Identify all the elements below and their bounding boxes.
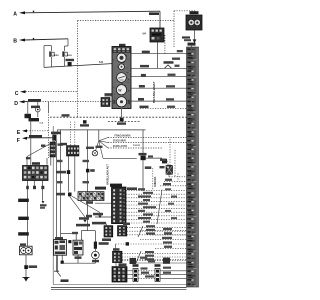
- label blockC out 1: [145, 251, 154, 253]
- wire ecu left 2: [95, 216, 112, 218]
- wire cluster out y88.2: [131, 87, 187, 89]
- label blockC out 2: [145, 255, 154, 257]
- connector column: [50, 142, 56, 157]
- wire ecu out 7: [126, 211, 187, 213]
- box small 1: [130, 258, 137, 264]
- label 5/1: [119, 44, 126, 47]
- svg-text:F: F: [17, 138, 20, 144]
- label row 101.1 a: [138, 98, 144, 101]
- wire cluster out y53.7: [131, 53, 187, 55]
- svg-text:D: D: [14, 101, 18, 107]
- wire M4 pin down: [194, 30, 196, 44]
- wire ecu left 1: [95, 202, 112, 204]
- wire dotted lamp3: [108, 147, 162, 149]
- label C29A: [29, 265, 37, 268]
- wire sender up: [37, 102, 39, 108]
- wire relay link: [61, 232, 77, 234]
- wire bottom row l 274.6: [127, 274, 133, 276]
- terminal arrow: [193, 39, 197, 43]
- label row 76.7 b: [168, 74, 176, 76]
- label y263: [148, 260, 155, 262]
- wire bottom row m 270.8: [138, 270, 155, 272]
- wire diag t2: [72, 196, 100, 212]
- label row 53.7 a: [142, 51, 150, 54]
- connector 1480: [67, 170, 70, 174]
- wire dotted y176: [169, 176, 187, 178]
- slash bundle B: [138, 226, 143, 237]
- label block 12/50: [60, 143, 67, 146]
- label ecu out 4: [143, 199, 150, 201]
- label ecu out 6: [143, 206, 156, 208]
- label ecu left 2: [86, 215, 92, 218]
- label 24/35b: [51, 132, 61, 135]
- svg-text:KD3: KD3: [68, 55, 73, 57]
- wire ecu out 10: [126, 222, 187, 224]
- wire pump feed: [94, 231, 96, 242]
- label ecu out 7: [138, 210, 145, 212]
- label extra y57: [172, 58, 180, 60]
- wire ecu out 8: [126, 215, 187, 217]
- wire A: [25, 11, 161, 13]
- wire blockC out 2: [122, 256, 187, 258]
- label ecu out near 5: [168, 203, 174, 205]
- wire ecu out 3: [126, 197, 187, 199]
- wire b+ drop: [27, 102, 29, 114]
- svg-text:6-R: 6-R: [99, 61, 103, 64]
- wire bottom row r 278.4: [160, 277, 187, 279]
- wire comp2 top link: [65, 45, 69, 47]
- wire dotted top: [174, 10, 196, 12]
- label row 88.2 a: [139, 85, 145, 88]
- label horn: [20, 243, 26, 245]
- label blockB out 1: [146, 225, 155, 227]
- wire B: [25, 39, 69, 40]
- wire dotted drop: [173, 11, 175, 47]
- dashed separator: [50, 116, 187, 118]
- label ecu out 5: [138, 203, 148, 205]
- relay unit 1: [54, 240, 67, 256]
- ecu header: [110, 184, 122, 187]
- pin connector x133: [133, 268, 138, 281]
- wire bracket top: [44, 45, 52, 47]
- label UGA: [182, 36, 190, 38]
- wire dotted rail top: [78, 20, 175, 22]
- label ecu out near 3: [171, 196, 177, 198]
- label 24/8: [139, 153, 147, 156]
- relay 18/35: [166, 165, 173, 174]
- label B-R on separator: [62, 114, 70, 116]
- wire fan 2: [99, 141, 108, 143]
- wire D: [25, 101, 41, 103]
- wire blockP pin up 2: [74, 122, 76, 146]
- wire into 18/35: [167, 163, 169, 165]
- wire dotted y239: [140, 239, 187, 241]
- label row 53.7 b: [177, 50, 183, 52]
- wire grid out a: [33, 181, 35, 189]
- junction bar: [187, 47, 199, 287]
- label 6-W mid: [72, 232, 78, 234]
- wire blockD pin1: [115, 263, 117, 267]
- wire column to grid: [50, 157, 52, 166]
- wire grid pin b: [30, 118, 32, 165]
- label relay1: [55, 237, 63, 240]
- connector 24/8b: [68, 193, 72, 197]
- label 6-P: [57, 181, 63, 183]
- connector mid corridor: [86, 169, 89, 173]
- label 1-56: [145, 166, 152, 169]
- svg-text:E: E: [17, 130, 21, 136]
- bar tick: [191, 46, 193, 47]
- label 18/35 a: [160, 166, 165, 168]
- label br3: [141, 272, 149, 274]
- wire bracket left: [43, 46, 45, 68]
- wire bottom row m 274.6: [138, 274, 155, 276]
- wire cluster out y108.3: [140, 107, 187, 109]
- wire v below 24/8: [142, 160, 144, 191]
- wire corridor b: [86, 130, 88, 231]
- component small: [162, 159, 167, 164]
- wire diag t1: [70, 196, 86, 217]
- label on D: [28, 99, 41, 101]
- wire blockB out 2: [127, 230, 187, 232]
- block 7/20: [104, 226, 113, 237]
- wire to 24/8: [103, 157, 137, 159]
- svg-text:ANNARA: ANNARA: [154, 176, 157, 187]
- label sq a: [80, 124, 89, 126]
- wire relay 6/4 pin down: [156, 42, 158, 68]
- label 11/18: [32, 162, 40, 165]
- connector y244: [126, 242, 129, 245]
- wire dotted y186: [160, 185, 187, 187]
- wire bottom row m 278.4: [138, 277, 155, 279]
- wire blockC pin up: [115, 244, 117, 251]
- relay 24/8: [141, 156, 146, 161]
- wire grid pin a: [26, 157, 28, 166]
- label blockB: [123, 223, 130, 225]
- connector C29: [24, 265, 28, 269]
- fuse symbol: [165, 65, 172, 68]
- connector sq a: [83, 120, 87, 123]
- wire comp2 pin down: [64, 57, 66, 67]
- frame bottom: [53, 284, 186, 286]
- diode unit 1: [49, 51, 59, 56]
- slash bundle C: [136, 251, 141, 263]
- wire drop to relay 6/4: [159, 11, 161, 28]
- wire blockP out2: [74, 156, 76, 192]
- wire mid horizontal: [57, 129, 145, 131]
- wire dotted lamp2: [108, 142, 187, 144]
- svg-text:VAXELLADA AUT: VAXELLADA AUT: [107, 164, 110, 185]
- label blockC out 3: [145, 258, 154, 260]
- wire C dotted: [26, 91, 78, 93]
- label ecu out 9: [138, 217, 151, 219]
- wire 4-R: [146, 157, 162, 159]
- wire blockA pin: [106, 224, 108, 226]
- label 1480: [56, 171, 66, 174]
- wire mid far drop: [142, 130, 144, 156]
- wire blockB out 1: [127, 227, 187, 229]
- wire F arrow: [22, 137, 27, 140]
- label bar 4/8: [188, 43, 196, 46]
- label y230: [163, 228, 172, 230]
- wire D dotted: [40, 101, 112, 103]
- label ecu out near 7: [165, 210, 171, 212]
- label br1: [141, 267, 148, 269]
- wire C arrow: [20, 90, 26, 93]
- connector strip: [78, 192, 104, 201]
- wire dotted y259b: [170, 258, 187, 260]
- relay M4: [186, 15, 202, 30]
- label ecu out near 9: [171, 217, 177, 219]
- wire ecu out 6: [126, 208, 187, 210]
- bulb: [92, 151, 97, 156]
- label ecu out near 1: [165, 188, 171, 190]
- wire dotted v x77: [77, 21, 79, 118]
- wire dotted feed x170: [169, 139, 171, 165]
- label 2/45: [40, 204, 47, 206]
- label br4: [163, 272, 171, 274]
- label y239: [162, 237, 172, 239]
- wire sender down: [37, 112, 39, 117]
- label row 68.3 a: [140, 65, 149, 68]
- label C294: [18, 232, 29, 235]
- wire A arrow: [19, 11, 25, 14]
- ground diag: [57, 271, 61, 276]
- label blockA: [102, 238, 111, 241]
- relay 6/4: [150, 28, 164, 42]
- wire diagonal: [27, 141, 56, 157]
- wire ecu out 2: [126, 193, 187, 195]
- wire B arrow: [19, 39, 25, 42]
- wire cluster out y68.3: [131, 67, 187, 69]
- terminal 2/45: [42, 201, 45, 204]
- wire bottom row r 270.8: [160, 270, 187, 272]
- label raket: [86, 147, 94, 149]
- ecu block: [112, 187, 127, 224]
- label row 108.3 b: [167, 106, 175, 108]
- wire junction to column: [52, 141, 54, 143]
- border line 2: [51, 288, 187, 290]
- wire cluster pin down: [121, 109, 123, 118]
- label ecu out 10: [143, 221, 150, 223]
- connector relay1 b: [61, 261, 64, 264]
- wire bottom link: [62, 262, 95, 264]
- label blockD: [119, 263, 127, 266]
- label B+ box: [25, 114, 32, 118]
- wire dotted below 18/35: [177, 173, 179, 181]
- label ecu out 1: [138, 188, 145, 190]
- wire bottom row r 274.6: [160, 274, 187, 276]
- label y244: [163, 241, 172, 243]
- wire B drop: [67, 39, 69, 46]
- label t1: [79, 217, 89, 220]
- box small 2: [163, 258, 170, 264]
- wire dotted v x175: [174, 150, 176, 177]
- wire blockD pin2: [119, 263, 121, 267]
- label 6/22: [164, 61, 174, 64]
- wire dotted y259: [122, 258, 163, 260]
- wire 18/35 down: [168, 174, 170, 177]
- label mid corridor: [90, 169, 95, 172]
- block 7/35: [118, 226, 127, 236]
- label y248: [164, 246, 172, 248]
- wire dotted y248: [155, 247, 187, 249]
- wire ecu out 9: [126, 218, 187, 220]
- svg-text:FRAGAN NRA: FRAGAN NRA: [115, 135, 131, 138]
- label 24/6: [117, 122, 126, 124]
- wire horn down: [25, 255, 27, 265]
- wire y263: [136, 262, 187, 264]
- tick grid out b: [26, 186, 29, 189]
- label on F: [29, 135, 42, 137]
- wire E arrow: [22, 129, 27, 132]
- label UGA2: [184, 39, 191, 41]
- label 24/36: [18, 217, 29, 220]
- pin connector x155: [155, 268, 160, 281]
- label t2: [93, 213, 103, 216]
- svg-text:A: A: [13, 11, 17, 17]
- label t2b: [92, 222, 106, 225]
- wire E dotted: [27, 130, 49, 132]
- label 18/35 b: [160, 159, 166, 161]
- wire blockC out 1: [122, 252, 187, 254]
- wire chain solid: [46, 158, 48, 165]
- label ecu arrow: [127, 187, 137, 190]
- wire comp1 pin down: [51, 57, 53, 67]
- tick on B: [33, 38, 34, 40]
- label strip: [95, 187, 106, 190]
- pump connector: [94, 242, 97, 249]
- terminal t1: [83, 220, 86, 223]
- wire cluster left 16-A: [105, 95, 113, 97]
- label blockC: [113, 248, 120, 251]
- tick grid out c: [41, 186, 44, 189]
- tick grid out a: [33, 186, 36, 189]
- junction box 24/35b: [52, 135, 56, 141]
- wire corridor a: [60, 130, 62, 240]
- wire blockP pin up 1: [69, 122, 71, 146]
- label 24/8b: [56, 193, 65, 196]
- wire to cluster: [44, 64, 112, 68]
- wire to ground: [25, 269, 27, 277]
- wire relay1 down b: [61, 255, 63, 260]
- wire cluster out y101.1: [131, 100, 187, 102]
- wire fan bulb: [96, 141, 99, 151]
- label 16-W: [83, 160, 90, 162]
- label y259: [140, 257, 147, 259]
- wire bottom row l 270.8: [127, 270, 133, 272]
- label row 68.3 b: [175, 65, 180, 67]
- wire comp1 pin up: [51, 46, 53, 52]
- label row 108.3 a: [140, 106, 149, 109]
- label row 88.2 b: [166, 85, 175, 87]
- label 4-R: [148, 155, 153, 157]
- svg-text:TJOCK: TJOCK: [133, 145, 141, 147]
- wire fan 3: [99, 141, 108, 148]
- label GBN: [61, 279, 69, 282]
- wire dotted v x164: [164, 35, 166, 54]
- label 24/35c: [18, 199, 29, 202]
- wire dotted y230: [140, 230, 187, 232]
- wire fan to relay wire: [99, 141, 103, 159]
- label ecu out 3: [138, 195, 151, 197]
- label 24/35: [66, 59, 75, 61]
- wire relay1 down b2: [61, 263, 63, 265]
- wire mid right drop: [98, 130, 100, 141]
- wire main down: [56, 141, 58, 272]
- wire F: [27, 137, 55, 139]
- block 12/50: [67, 146, 79, 156]
- wire dotted y244: [116, 243, 187, 245]
- slash bundle ecu: [157, 190, 162, 225]
- terminal t2: [98, 215, 101, 218]
- label 16-A: [105, 93, 112, 95]
- wire dotted y181: [164, 180, 187, 182]
- label conn1: [133, 264, 139, 267]
- wire blockB out 3: [127, 234, 187, 236]
- label 2/45b: [40, 207, 45, 209]
- pump motor: [92, 251, 100, 259]
- wire D arrow: [19, 100, 25, 103]
- wire relay2 down: [77, 255, 79, 263]
- tick on A: [33, 11, 34, 13]
- label 24/2: [31, 106, 40, 109]
- wire ecu out 1: [126, 190, 187, 192]
- wire comp2 pin up: [64, 46, 66, 51]
- wire ecu out 5: [126, 204, 187, 206]
- diode unit 2: [62, 51, 72, 56]
- dashed separator 2: [108, 120, 140, 122]
- wire relay top a: [60, 239, 62, 241]
- svg-text:EUOS AUTO: EUOS AUTO: [113, 145, 127, 148]
- label SVB-P: [99, 242, 109, 245]
- label blockB out 2: [146, 229, 155, 231]
- wire chain down: [48, 102, 50, 112]
- label blockB out 3: [146, 232, 155, 234]
- wire relay drop c: [80, 231, 82, 241]
- label at bend: [26, 157, 30, 159]
- label row 101.1 b: [166, 98, 174, 100]
- wire corridor b end: [86, 230, 88, 232]
- label WH: [58, 143, 64, 145]
- wire grid out c: [42, 181, 44, 201]
- label 6-W a: [57, 160, 63, 162]
- wire dotted y235: [150, 234, 187, 236]
- wire dotted v x152: [152, 168, 154, 190]
- wire pump down: [94, 259, 96, 263]
- ground mid tick: [54, 270, 59, 272]
- label conn2: [155, 264, 161, 267]
- label 1-SB a: [83, 181, 90, 183]
- wire bottom row l 278.4: [127, 277, 133, 279]
- label y235: [164, 232, 172, 234]
- connector grid 11/18: [23, 166, 49, 181]
- label below wire A right end: [149, 12, 159, 15]
- block 23/2: [112, 267, 127, 282]
- wire grid out b: [27, 181, 29, 247]
- label ecu out 8: [143, 213, 153, 215]
- wire relay1 down a: [56, 255, 58, 271]
- connector sq b: [120, 118, 124, 122]
- ground symbol: [23, 276, 30, 278]
- connector relay mid: [68, 240, 71, 243]
- label y186: [163, 183, 171, 185]
- horn unit: [20, 246, 33, 255]
- svg-text:6-A: 6-A: [40, 122, 44, 125]
- svg-text:KD3: KD3: [54, 55, 59, 57]
- block 7B: [113, 251, 123, 262]
- label pump: [92, 260, 99, 263]
